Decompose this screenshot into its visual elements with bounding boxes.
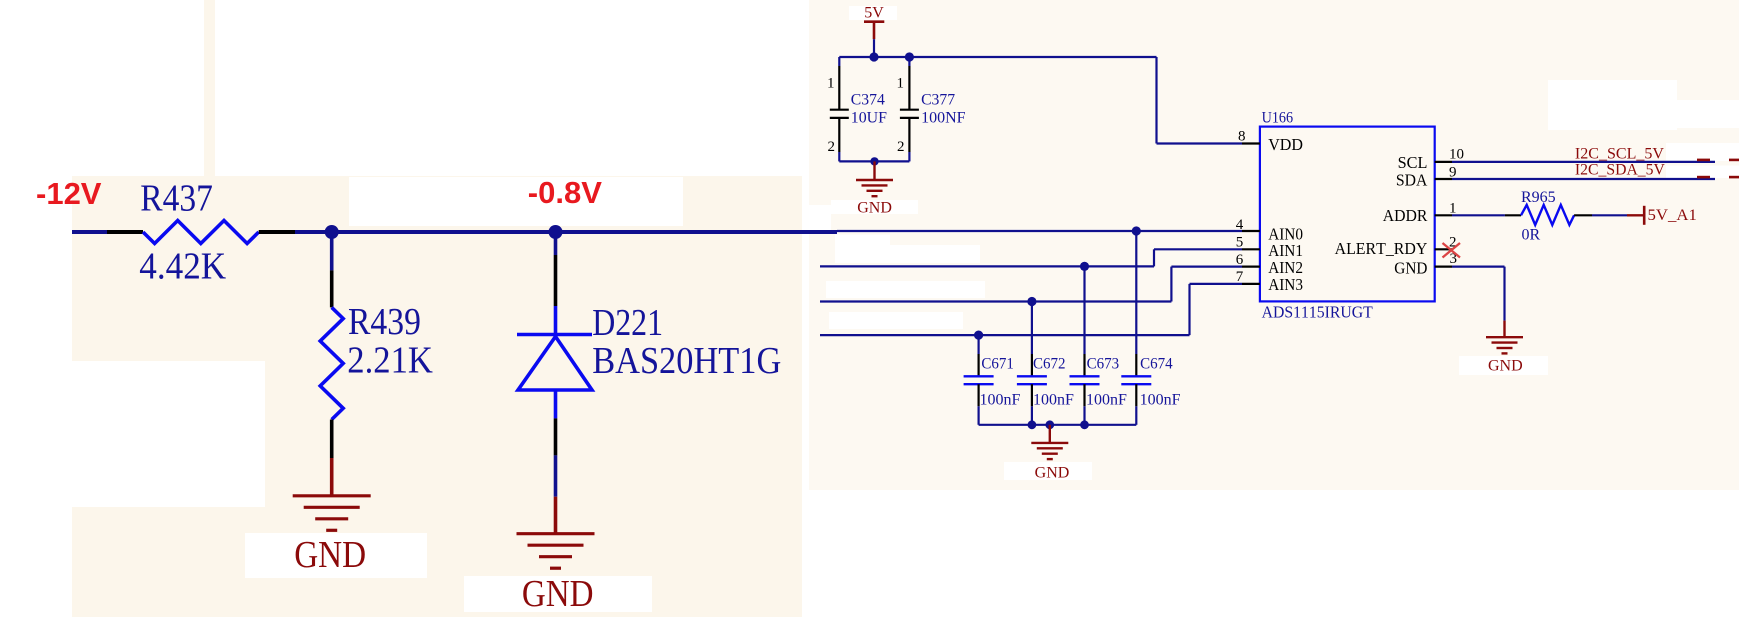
svg-text:I2C_SDA_5V: I2C_SDA_5V: [1575, 162, 1665, 179]
svg-text:5V: 5V: [864, 5, 884, 22]
svg-text:GND: GND: [522, 573, 594, 615]
svg-text:1: 1: [897, 76, 905, 92]
svg-text:100nF: 100nF: [1086, 392, 1127, 409]
svg-text:100nF: 100nF: [1033, 392, 1074, 409]
svg-text:AIN3: AIN3: [1268, 275, 1303, 294]
svg-text:7: 7: [1236, 269, 1244, 285]
svg-text:D221: D221: [592, 302, 663, 344]
svg-text:C672: C672: [1033, 356, 1066, 373]
svg-text:100nF: 100nF: [1140, 392, 1181, 409]
svg-text:10: 10: [1449, 146, 1464, 162]
svg-text:C671: C671: [981, 356, 1014, 373]
svg-text:U166: U166: [1262, 110, 1294, 127]
svg-text:5: 5: [1236, 235, 1244, 251]
svg-text:R437: R437: [140, 178, 213, 220]
svg-text:1: 1: [1449, 201, 1457, 217]
svg-text:GND: GND: [294, 534, 366, 576]
svg-text:6: 6: [1236, 252, 1244, 268]
svg-text:ADDR: ADDR: [1383, 206, 1428, 225]
svg-text:ADS1115IRUGT: ADS1115IRUGT: [1262, 302, 1374, 321]
svg-text:2: 2: [897, 139, 905, 155]
svg-text:-0.8V: -0.8V: [528, 175, 602, 210]
svg-text:GND: GND: [1394, 259, 1427, 278]
svg-text:R965: R965: [1521, 189, 1556, 206]
svg-text:SDA: SDA: [1396, 171, 1428, 190]
svg-text:AIN2: AIN2: [1268, 258, 1303, 277]
svg-text:-12V: -12V: [36, 176, 102, 211]
svg-text:0R: 0R: [1522, 226, 1541, 243]
svg-text:SCL: SCL: [1398, 153, 1428, 172]
svg-text:VDD: VDD: [1268, 135, 1303, 154]
svg-text:C674: C674: [1140, 356, 1173, 373]
svg-text:I2C_SCL_5V: I2C_SCL_5V: [1575, 146, 1665, 163]
svg-text:4: 4: [1236, 217, 1244, 233]
svg-text:C673: C673: [1087, 356, 1120, 373]
svg-text:4.42K: 4.42K: [139, 246, 226, 288]
svg-text:C377: C377: [921, 92, 955, 109]
svg-text:BAS20HT1G: BAS20HT1G: [592, 340, 781, 382]
svg-text:GND: GND: [1035, 465, 1070, 482]
svg-text:8: 8: [1238, 129, 1246, 145]
svg-text:5V_A1: 5V_A1: [1648, 207, 1697, 224]
svg-text:C374: C374: [851, 92, 885, 109]
svg-text:2: 2: [828, 139, 836, 155]
svg-text:1: 1: [827, 76, 835, 92]
svg-text:ALERT_RDY: ALERT_RDY: [1335, 239, 1428, 258]
svg-text:100NF: 100NF: [921, 110, 966, 127]
svg-text:2.21K: 2.21K: [347, 339, 433, 381]
svg-text:100nF: 100nF: [980, 392, 1021, 409]
svg-text:10UF: 10UF: [851, 110, 887, 127]
svg-text:GND: GND: [857, 199, 892, 216]
svg-text:GND: GND: [1488, 357, 1523, 374]
svg-text:R439: R439: [348, 301, 421, 343]
